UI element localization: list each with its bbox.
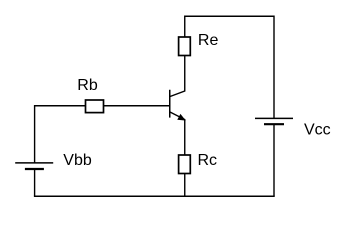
wire collector lead — [170, 56, 185, 97]
battery Vcc — [255, 118, 293, 124]
svg-text:Rb: Rb — [77, 77, 98, 94]
transistor Q1 base bar — [169, 90, 171, 118]
wire base right segment — [104, 105, 170, 107]
resistor Rc — [179, 155, 191, 174]
battery Vbb — [15, 163, 53, 169]
wire left vertical lower — [34, 169, 36, 196]
wire bottom rail — [34, 195, 275, 197]
transistor Q1 emitter arrowhead — [178, 115, 185, 121]
svg-text:Re: Re — [198, 32, 219, 49]
resistor Re — [179, 37, 191, 56]
svg-text:Vbb: Vbb — [63, 152, 92, 169]
wire left vertical upper — [35, 106, 86, 163]
wire top rail — [185, 16, 274, 118]
resistor Rb — [86, 100, 104, 113]
wire Rc bottom lead — [184, 174, 186, 197]
wire right vertical lower — [273, 124, 275, 196]
wire emitter lead — [170, 112, 185, 155]
svg-text:Rc: Rc — [198, 152, 218, 169]
svg-text:Vcc: Vcc — [304, 121, 331, 138]
